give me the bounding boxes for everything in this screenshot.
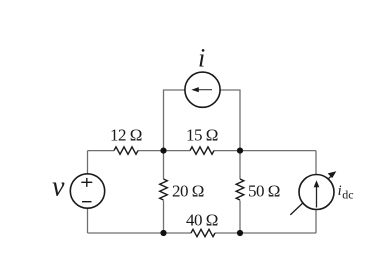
svg-text:20 Ω: 20 Ω: [172, 182, 204, 201]
svg-text:50 Ω: 50 Ω: [248, 182, 280, 201]
svg-text:i: i: [338, 183, 342, 199]
svg-text:dc: dc: [342, 188, 353, 202]
svg-text:15 Ω: 15 Ω: [186, 126, 218, 145]
svg-text:v: v: [52, 172, 65, 203]
svg-text:12 Ω: 12 Ω: [110, 126, 142, 145]
svg-text:40 Ω: 40 Ω: [186, 211, 218, 230]
svg-text:i: i: [198, 44, 205, 73]
